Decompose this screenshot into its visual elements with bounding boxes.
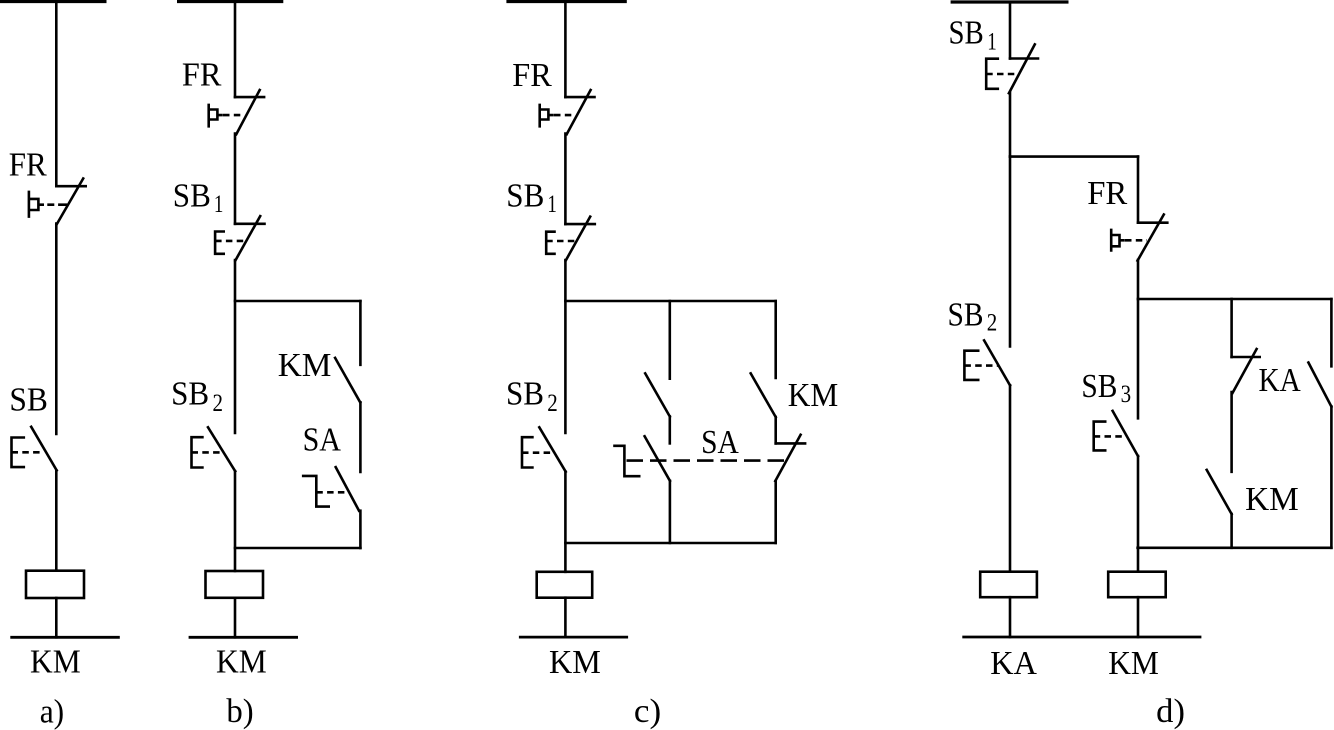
node: d box bottom junction <box>1138 546 1332 549</box>
node: c branch top junction <box>565 300 775 303</box>
wire: d FR branch vertical <box>1137 157 1140 223</box>
start pushbutton contact SB2 b <box>192 427 236 471</box>
wire: bottom rail a <box>12 636 119 639</box>
wire: a coil to rail <box>55 598 58 637</box>
svg-text:KA: KA <box>1259 362 1302 399</box>
wire: d FR to junction2 <box>1137 260 1140 299</box>
coil KA d <box>980 572 1037 598</box>
wire: top supply rail b <box>179 0 282 3</box>
wire: d left lower vertical <box>1009 385 1012 571</box>
label SB1 c <box>506 178 557 218</box>
wire: c vertical FR to SB1 <box>564 134 567 225</box>
svg-text:SB: SB <box>506 178 544 215</box>
svg-text:c): c) <box>634 693 661 730</box>
thermal relay contact FR c <box>540 90 595 134</box>
node: b branch top junction <box>235 300 360 303</box>
svg-text:KM: KM <box>1108 645 1159 682</box>
interlock contact KA d <box>1232 349 1260 393</box>
start pushbutton contact SB2 c <box>522 427 566 471</box>
start pushbutton contact SB2 d <box>964 340 1010 385</box>
wire: a mid vertical <box>55 224 58 435</box>
coil KM d <box>1108 572 1166 598</box>
stop pushbutton contact SB1 c <box>546 217 595 261</box>
coil KM c <box>537 572 593 598</box>
svg-text:KM: KM <box>278 347 332 384</box>
label SB1 d <box>949 15 997 56</box>
svg-text:FR: FR <box>182 57 222 94</box>
linkage: SA dashed coupling line c <box>627 459 788 462</box>
wire: d box right vertical lower <box>1330 407 1333 548</box>
node: c branch bottom junction <box>565 542 775 545</box>
label SB3 d <box>1081 368 1131 408</box>
svg-text:1: 1 <box>987 29 997 56</box>
svg-text:KM: KM <box>788 377 839 414</box>
wire: d SB3 to KM coil <box>1137 456 1140 572</box>
jog pushbutton contact SB3 d <box>1094 411 1138 456</box>
wire: d left vertical to SB2 <box>1009 157 1012 347</box>
svg-text:SB: SB <box>173 178 211 215</box>
wire: c upper vertical <box>564 2 567 98</box>
stop pushbutton contact SB1 b <box>215 216 264 261</box>
switch contact SA pole 2 c <box>615 435 806 481</box>
wire: c middle branch between contacts <box>668 417 671 444</box>
svg-text:SA: SA <box>303 422 342 459</box>
svg-text:SA: SA <box>701 424 739 461</box>
svg-text:KM: KM <box>30 644 81 681</box>
contact SB remote c (middle branch upper) <box>645 373 670 416</box>
svg-text:KM: KM <box>549 644 601 681</box>
wire: d box middle vertical mid <box>1230 392 1233 472</box>
wire: b vertical SB1 to SB2 <box>234 260 237 433</box>
svg-text:3: 3 <box>1121 381 1132 408</box>
wire: d box middle vertical lower <box>1230 514 1233 548</box>
svg-text:FR: FR <box>1087 175 1127 212</box>
wire: b main lower vertical <box>234 471 237 571</box>
svg-text:1: 1 <box>547 191 557 218</box>
svg-text:SB: SB <box>1081 368 1117 405</box>
wire: d box right vertical upper <box>1330 299 1333 366</box>
wire: b upper vertical <box>234 2 237 98</box>
wire: c middle branch lower <box>669 481 672 543</box>
contact KM auxiliary b <box>335 358 360 402</box>
self-holding contact KM d <box>1207 470 1232 514</box>
wire: b vertical FR to SB1 <box>234 134 237 224</box>
wire: top supply rail a <box>0 0 105 3</box>
label SB2 c <box>506 376 558 417</box>
wire: c middle branch upper <box>668 301 671 379</box>
wire: d KM coil to rail <box>1137 597 1140 637</box>
node: b branch bottom junction <box>235 547 360 550</box>
svg-text:SB: SB <box>949 15 984 52</box>
svg-text:SB: SB <box>948 297 984 334</box>
svg-text:1: 1 <box>214 191 224 218</box>
wire: d top vertical <box>1009 2 1012 59</box>
coil KM b <box>206 571 264 598</box>
svg-text:2: 2 <box>987 310 998 337</box>
svg-text:SB: SB <box>506 376 544 413</box>
thermal relay contact FR b <box>209 90 264 134</box>
svg-text:2: 2 <box>547 390 558 417</box>
wire: d KA coil to rail <box>1009 597 1012 637</box>
contact KM auxiliary c <box>751 373 776 417</box>
wire: bottom rail d <box>964 636 1200 639</box>
coil KM a <box>26 571 84 598</box>
wire: c right branch lower <box>774 481 777 543</box>
switch contact SA pole 1 c <box>645 436 670 481</box>
svg-text:SB: SB <box>171 376 209 413</box>
wire: a lower vertical <box>55 470 58 570</box>
wire: top supply rail d <box>952 0 1067 3</box>
wire: c main lower vertical <box>564 472 567 572</box>
svg-text:a): a) <box>40 694 64 730</box>
thermal relay contact FR d <box>1111 215 1167 261</box>
wire: b branch right upper <box>359 301 362 365</box>
wire: d vertical junction2 to SB3 <box>1137 299 1140 418</box>
svg-text:KM: KM <box>216 644 267 681</box>
thermal relay contact FR a <box>29 179 86 225</box>
pushbutton contact SB a <box>12 427 57 471</box>
label SB1 b <box>173 178 224 218</box>
wire: bottom rail c <box>520 636 626 639</box>
svg-text:d): d) <box>1156 693 1185 730</box>
wire: top supply rail c <box>508 0 625 3</box>
wire: b coil to rail <box>234 598 237 638</box>
svg-text:FR: FR <box>9 147 47 184</box>
label SB2 d <box>948 297 998 337</box>
label SB2 b <box>171 376 223 417</box>
wire: c right branch middle <box>774 417 777 443</box>
wire: d vertical SB1 to junction <box>1009 93 1012 157</box>
wire: b branch middle <box>359 402 362 472</box>
svg-text:KA: KA <box>990 645 1037 682</box>
svg-text:FR: FR <box>512 57 552 94</box>
wire: c right branch upper <box>774 301 777 378</box>
svg-text:b): b) <box>226 693 253 730</box>
wire: c coil to rail <box>564 598 567 637</box>
node: d junction to FR branch <box>1010 155 1138 158</box>
svg-text:2: 2 <box>213 390 224 417</box>
node: d junction2 branch top <box>1138 298 1331 301</box>
wire: d box middle vertical upper <box>1230 299 1233 357</box>
switch contact SA b <box>303 467 359 511</box>
wire: bottom rail b <box>190 636 297 639</box>
contact KA auxiliary d (right) <box>1308 363 1331 407</box>
wire: b branch right lower <box>359 511 362 548</box>
wire: a upper vertical <box>55 2 58 187</box>
wire: c vertical SB1 to SB2 <box>564 260 567 433</box>
stop pushbutton contact SB1 d <box>986 44 1038 93</box>
svg-text:KM: KM <box>1245 481 1299 518</box>
svg-text:SB: SB <box>9 382 48 419</box>
